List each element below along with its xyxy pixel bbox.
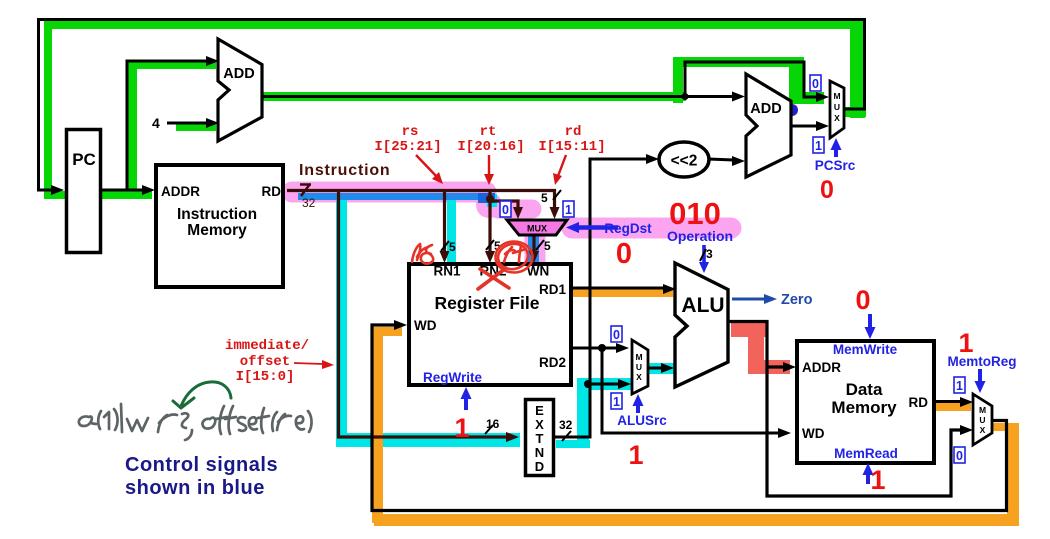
handwritten red X over RN2 bbox=[478, 268, 509, 289]
label rs field bbox=[374, 124, 441, 155]
wire highlight: orange writeback path to WD bbox=[372, 327, 1019, 526]
svg-text:0: 0 bbox=[956, 449, 963, 463]
wire highlight: green stub at PCSrc mux output bbox=[845, 107, 866, 117]
svg-text:32: 32 bbox=[302, 196, 316, 210]
ALU bbox=[675, 263, 728, 387]
svg-text:Instruction: Instruction bbox=[177, 206, 257, 223]
control arrow ALUSrc bbox=[633, 394, 644, 413]
svg-text:5: 5 bbox=[544, 239, 551, 253]
svg-text:5: 5 bbox=[449, 240, 456, 254]
svg-text:T: T bbox=[536, 431, 544, 446]
svg-text:1: 1 bbox=[628, 440, 643, 470]
svg-text:ADDR: ADDR bbox=[161, 184, 200, 199]
control arrow Operation bbox=[699, 245, 709, 273]
arrow into MemtoReg mux input 0 bbox=[960, 425, 973, 435]
svg-text:Memory: Memory bbox=[831, 398, 897, 417]
bus width slash 3 at Operation bbox=[700, 247, 713, 261]
svg-text:0: 0 bbox=[502, 203, 509, 217]
mux PCSrc bbox=[830, 81, 844, 138]
node: junction extended offset bbox=[584, 380, 592, 388]
svg-text:shown in blue: shown in blue bbox=[125, 477, 265, 499]
svg-text:RD1: RD1 bbox=[539, 282, 566, 297]
wire: branch up from PC output to ADD1 input bbox=[127, 61, 208, 190]
svg-text:0: 0 bbox=[616, 238, 632, 270]
control arrow PCSrc bbox=[831, 138, 842, 157]
wire highlight: green bypass around ADD2 to PCSrc mux bbox=[673, 57, 824, 104]
svg-text:0: 0 bbox=[613, 328, 620, 342]
boxed constant 1 on PCSrc mux bbox=[813, 137, 824, 153]
wire: maroon instruction bus bbox=[287, 191, 555, 210]
arrow into EXTND bbox=[506, 432, 519, 442]
label rd field bbox=[538, 124, 605, 155]
wire: data memory RD to MemtoReg mux input 1 bbox=[935, 400, 962, 403]
arrow into PC bbox=[51, 185, 64, 195]
wire highlight: pink band over instruction bus bbox=[292, 182, 486, 203]
svg-text:ALUSrc: ALUSrc bbox=[617, 413, 667, 428]
wire: ALU result to data memory ADDR bbox=[728, 322, 785, 368]
control arrow MemtoReg bbox=[975, 369, 986, 393]
wire: PC loop from PCSrc mux output around top back to PC bbox=[39, 20, 865, 191]
wire highlight: green constant-4 wire bbox=[176, 123, 216, 131]
bus width slash 32 at RD bbox=[300, 184, 316, 210]
svg-text:rs: rs bbox=[402, 124, 419, 140]
node: junction RD2 bbox=[598, 344, 606, 352]
svg-text:I[15:0]: I[15:0] bbox=[236, 369, 295, 385]
arrow into RN2 bbox=[485, 251, 495, 263]
blue dot artifact at ADD2 edge bbox=[786, 104, 798, 116]
svg-text:M: M bbox=[833, 91, 840, 101]
svg-text:RD: RD bbox=[262, 184, 282, 199]
arrow into ALU input B bbox=[661, 363, 674, 373]
arrow into RN1 bbox=[440, 251, 450, 263]
svg-text:3: 3 bbox=[706, 247, 713, 261]
arrow into ALUSrc mux input 0 bbox=[616, 343, 629, 353]
svg-text:N: N bbox=[535, 445, 544, 460]
register PC bbox=[67, 130, 101, 253]
svg-text:1: 1 bbox=[956, 379, 963, 393]
label rt field bbox=[457, 124, 524, 155]
svg-text:X: X bbox=[636, 372, 642, 382]
wire highlight: red ALU result to ADDR bbox=[731, 323, 790, 374]
data memory bbox=[797, 341, 934, 463]
wire: RegDst mux output to WN bbox=[532, 236, 535, 252]
svg-text:MemRead: MemRead bbox=[834, 446, 898, 461]
svg-text:RD2: RD2 bbox=[539, 355, 566, 370]
svg-text:U: U bbox=[636, 362, 642, 372]
svg-text:32: 32 bbox=[559, 418, 573, 432]
svg-text:rt: rt bbox=[480, 124, 497, 140]
wire highlight: pink band RegDst arrow bbox=[572, 218, 731, 239]
wire: ADD1 output PC+4 to ADD2 bbox=[262, 95, 734, 98]
svg-text:1: 1 bbox=[565, 203, 572, 217]
annotation arrow offset to wire bbox=[294, 360, 334, 369]
svg-text:I[15:11]: I[15:11] bbox=[538, 139, 605, 155]
node: blue corner at rt junction bbox=[478, 193, 495, 203]
wire highlight: cyan rs field to RN1 bbox=[447, 196, 456, 262]
svg-text:Data: Data bbox=[846, 380, 883, 399]
sign extender EXTND bbox=[526, 400, 554, 476]
svg-text:E: E bbox=[535, 403, 544, 418]
wire: MemtoReg mux output writeback to register WD bbox=[372, 325, 1007, 511]
bus width slash 16 into EXTND bbox=[485, 417, 500, 434]
svg-text:U: U bbox=[834, 102, 840, 112]
svg-text:PC: PC bbox=[72, 150, 96, 169]
arrow into data memory WD bbox=[778, 428, 791, 438]
svg-text:WD: WD bbox=[802, 426, 825, 441]
wire highlight: pink band mux output down to WN bbox=[525, 232, 546, 276]
wire: PC output to instruction memory ADDR bbox=[102, 189, 144, 192]
mux RegDst bbox=[507, 220, 567, 235]
handwritten green arrow bbox=[173, 382, 231, 408]
handwritten red rs over RN1 bbox=[412, 244, 433, 264]
control arrow RegDst bbox=[566, 222, 618, 233]
wire: blue instruction bus 32-bit bbox=[298, 193, 484, 200]
node: junction PC+4 bbox=[682, 93, 689, 100]
wire: RD2 to ALUSrc mux input 0 bbox=[573, 347, 618, 350]
svg-text:010: 010 bbox=[669, 196, 721, 231]
wire: rt field branch to RegDst mux input 0 bbox=[490, 201, 518, 209]
arrow into MemtoReg mux input 1 bbox=[960, 397, 973, 407]
bus width slash 5 at RN1 bbox=[441, 240, 456, 254]
wire: rs field down to RN1 bbox=[443, 192, 446, 252]
arrow into register file WD bbox=[394, 320, 407, 330]
svg-text:ADDR: ADDR bbox=[802, 360, 841, 375]
svg-text:Register File: Register File bbox=[434, 293, 539, 313]
svg-text:Memory: Memory bbox=[187, 222, 247, 239]
wire: PC+4 bypass around ADD2 to PCSrc mux input 0 bbox=[685, 62, 818, 97]
svg-text:<<2: <<2 bbox=[671, 153, 698, 170]
wire: shift-left-2 input from extended offset bbox=[590, 159, 648, 385]
svg-text:U: U bbox=[979, 415, 985, 425]
svg-text:PCSrc: PCSrc bbox=[815, 158, 856, 173]
wire: ALUSrc mux output to ALU input B bbox=[648, 367, 663, 370]
adder ADD2 bbox=[746, 74, 791, 177]
boxed constant 0 on ALUSrc mux bbox=[611, 326, 622, 342]
arrow into data memory ADDR bbox=[783, 362, 796, 372]
node: junction rt field on bus bbox=[486, 195, 494, 203]
wire highlight: cyan I[15:0] vertical bbox=[336, 195, 347, 447]
shifter shift-left-2 bbox=[659, 142, 709, 177]
svg-text:D: D bbox=[535, 459, 544, 474]
wire highlight: cyan ALUSrc mux output bbox=[645, 363, 674, 374]
arrow into ALU input A bbox=[663, 284, 676, 294]
wire: ALU result bypass down to MemtoReg mux input 0 bbox=[767, 367, 962, 496]
wire: maroon immediate I[15:0] down and into EXTND bbox=[339, 192, 509, 437]
signal arrow Zero bbox=[732, 294, 777, 304]
boxed constant 1 on RegDst mux bbox=[563, 201, 574, 217]
arrow into WN bbox=[529, 251, 539, 263]
control arrow MemWrite bbox=[865, 314, 876, 339]
svg-text:RN1: RN1 bbox=[433, 264, 460, 279]
wire highlight: green branch up to ADD1 bbox=[128, 61, 216, 196]
svg-text:M: M bbox=[635, 352, 642, 362]
wire highlight: green PC feedback loop top bbox=[44, 21, 865, 193]
svg-text:0: 0 bbox=[855, 285, 870, 315]
svg-text:M: M bbox=[979, 405, 986, 415]
svg-text:offset: offset bbox=[240, 354, 290, 370]
register file bbox=[409, 264, 571, 386]
svg-text:16: 16 bbox=[486, 417, 500, 431]
wire highlight: orange DataMemory RD output bbox=[935, 403, 971, 411]
wire highlight: cyan rt field stub bbox=[487, 194, 497, 207]
wire: RD2 branch down to data memory WD bbox=[602, 348, 780, 433]
arrow into PCSrc mux input 0 bbox=[816, 92, 829, 102]
handwritten red circle rt over WN bbox=[496, 241, 533, 272]
annotation arrow rd to bus bbox=[553, 155, 566, 185]
svg-text:MemWrite: MemWrite bbox=[833, 342, 898, 357]
wire: constant 4 into ADD1 bbox=[167, 122, 208, 125]
wire: rt field down to RN2 bbox=[488, 192, 491, 252]
svg-text:Instruction: Instruction bbox=[299, 162, 390, 179]
svg-text:RegWrite: RegWrite bbox=[423, 370, 483, 385]
svg-text:5: 5 bbox=[541, 191, 548, 205]
arrow into ADD1 top input bbox=[206, 56, 219, 66]
wire: blue RegDst mux output to WN bbox=[528, 232, 539, 262]
adder ADD1 bbox=[218, 39, 262, 141]
svg-text:4: 4 bbox=[152, 115, 160, 131]
boxed constant 1 on MemtoReg mux bbox=[954, 377, 965, 393]
wire highlight: green PC output to ADDR bbox=[44, 191, 152, 199]
svg-text:1: 1 bbox=[870, 465, 885, 495]
svg-text:1: 1 bbox=[815, 139, 822, 153]
control arrow RegWrite bbox=[461, 387, 472, 410]
svg-text:RD: RD bbox=[909, 395, 929, 410]
label immediate/offset bbox=[225, 338, 309, 385]
boxed constant 0 on RegDst mux bbox=[500, 201, 511, 217]
bus width slash 5 at RN2 bbox=[486, 239, 501, 253]
svg-text:Control signals: Control signals bbox=[125, 454, 278, 476]
instruction memory bbox=[156, 165, 283, 287]
wire highlight: green ADD1 output PC+4 bbox=[262, 92, 686, 101]
note control signals shown in blue bbox=[125, 454, 278, 499]
handwritten note lw instruction bbox=[79, 404, 312, 440]
wire highlight: orange RD1 to ALU bbox=[573, 288, 673, 297]
svg-text:1: 1 bbox=[613, 395, 620, 409]
svg-text:ADD: ADD bbox=[750, 101, 781, 117]
arrow into RegDst mux input 1 bbox=[550, 207, 560, 219]
mux ALUSrc bbox=[632, 340, 648, 394]
svg-text:X: X bbox=[535, 417, 544, 432]
svg-text:ALU: ALU bbox=[681, 294, 724, 317]
boxed constant 0 on PCSrc mux bbox=[810, 75, 821, 91]
arrow into PCSrc mux input 1 bbox=[816, 121, 829, 131]
wire: shifter output to ADD2 bottom input bbox=[708, 159, 734, 160]
arrow into ADD2 top input bbox=[732, 92, 745, 102]
arrow into ALUSrc mux input 1 bbox=[618, 379, 631, 389]
svg-text:X: X bbox=[834, 113, 840, 123]
mux MemtoReg bbox=[973, 394, 992, 445]
boxed constant 1 on ALUSrc mux bbox=[611, 393, 622, 409]
boxed constant 0 on MemtoReg mux bbox=[954, 447, 965, 463]
bus width slash 5 at rd field bbox=[541, 190, 561, 205]
svg-text:0: 0 bbox=[820, 176, 834, 204]
bus width slash 32 out of EXTND bbox=[559, 418, 573, 441]
arrow into shifter bbox=[646, 154, 659, 164]
wire: EXTND output up to ALUSrc mux input 1 bbox=[555, 384, 620, 437]
svg-text:RegDst: RegDst bbox=[604, 221, 652, 236]
svg-text:immediate/: immediate/ bbox=[225, 338, 309, 354]
svg-text:rd: rd bbox=[565, 124, 582, 140]
svg-text:1: 1 bbox=[454, 413, 469, 443]
svg-text:MUX: MUX bbox=[527, 224, 547, 234]
wire: RD1 to ALU input A bbox=[573, 287, 665, 290]
annotation arrow rs to bus bbox=[416, 155, 443, 184]
wire highlight: cyan horizontal into EXTND bbox=[336, 433, 520, 447]
svg-text:I[25:21]: I[25:21] bbox=[374, 139, 441, 155]
wire highlight: pink band over mux0 input bbox=[498, 200, 532, 219]
control arrow MemRead bbox=[863, 463, 874, 484]
svg-text:ADD: ADD bbox=[223, 66, 254, 82]
wire highlight: cyan EXTND output path bbox=[556, 378, 634, 448]
arrow into ADD2 bottom input bbox=[732, 156, 745, 166]
svg-text:1: 1 bbox=[958, 328, 973, 358]
svg-text:0: 0 bbox=[812, 77, 819, 91]
wire highlight: pink blob at rt junction bbox=[476, 192, 502, 218]
bus width slash 5 at WN bbox=[536, 239, 551, 253]
annotation arrow rt to bus bbox=[484, 155, 494, 185]
arrow into ADDR bbox=[142, 185, 155, 195]
arrow into ADD1 bottom input bbox=[206, 118, 219, 128]
svg-text:I[20:16]: I[20:16] bbox=[457, 139, 524, 155]
svg-text:X: X bbox=[980, 425, 986, 435]
svg-text:WD: WD bbox=[414, 318, 437, 333]
arrow into RegDst mux input 0 bbox=[513, 207, 523, 219]
wire: ADD2 output to PCSrc mux input 1 bbox=[791, 125, 818, 128]
svg-text:Zero: Zero bbox=[781, 292, 813, 308]
